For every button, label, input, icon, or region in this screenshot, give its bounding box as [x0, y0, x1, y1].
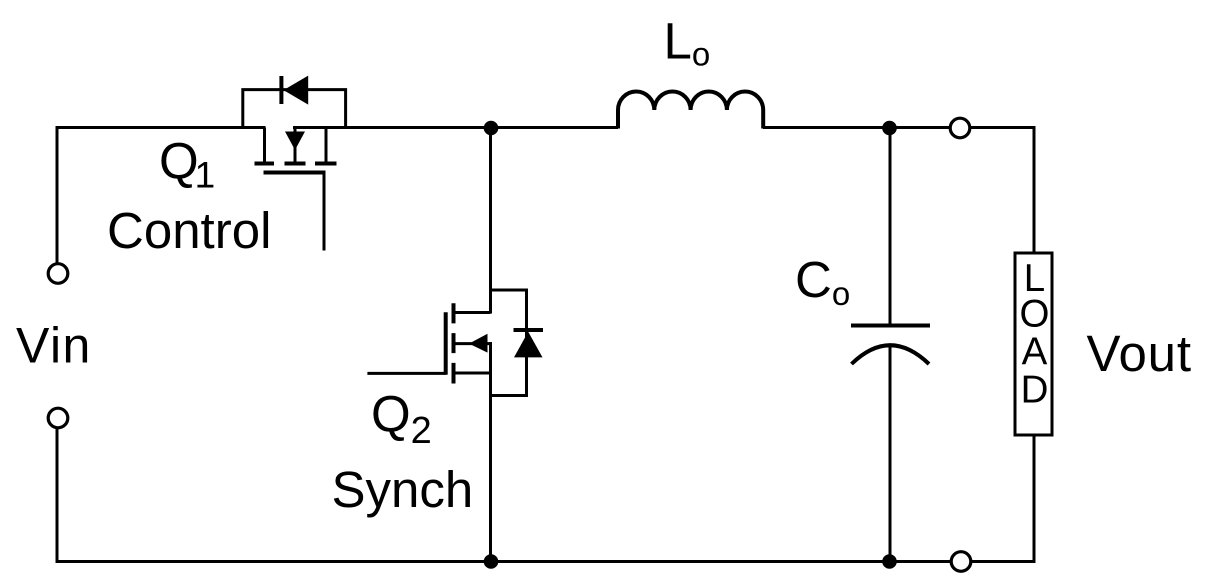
svg-text:D: D — [1021, 369, 1049, 412]
svg-text:O: O — [1020, 293, 1050, 336]
svg-text:A: A — [1022, 331, 1048, 374]
svg-text:Lo: Lo — [664, 13, 711, 73]
svg-text:Co: Co — [795, 251, 850, 312]
svg-text:Control: Control — [107, 202, 271, 259]
svg-text:Vout: Vout — [1087, 325, 1192, 382]
svg-text:Vin: Vin — [16, 318, 92, 374]
svg-text:Synch: Synch — [332, 461, 474, 518]
svg-text:Q1: Q1 — [159, 133, 215, 196]
svg-text:Q2: Q2 — [371, 386, 432, 453]
